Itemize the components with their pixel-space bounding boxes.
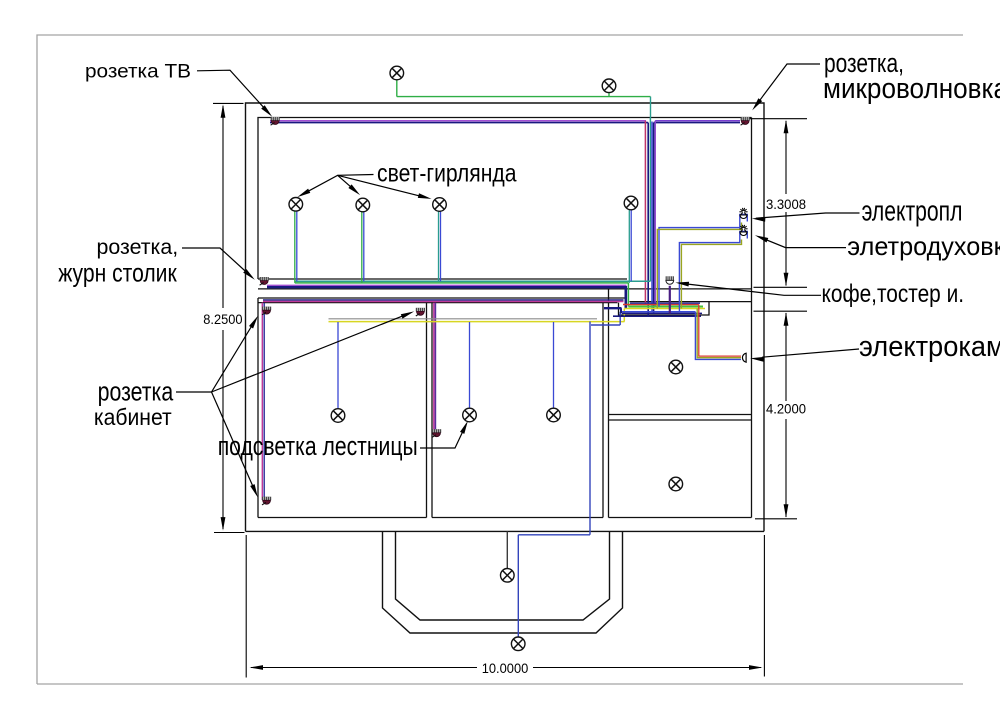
wire microwave violet horizontal bbox=[655, 120, 740, 122]
wire porch blue drop to lamp bbox=[517, 535, 519, 637]
wire lamp L6 drop bbox=[628, 210, 630, 283]
wire cabinet left navy vertical bbox=[263, 303, 265, 500]
socket stove bbox=[739, 208, 747, 219]
wall cabinet top upper line bbox=[258, 297, 625, 299]
lamp L2 (ceiling top right) bbox=[602, 79, 616, 93]
svg-text:микроволновка: микроволновка bbox=[823, 73, 1000, 105]
lamp L1 (ceiling top) bbox=[390, 66, 404, 80]
wire band navy C bbox=[630, 302, 700, 304]
wire porch blue junction bbox=[619, 312, 621, 325]
svg-text:4.2000: 4.2000 bbox=[766, 401, 806, 417]
wire green garland horizontal bbox=[295, 282, 629, 284]
leader fireplace bbox=[762, 349, 859, 357]
wire lamp L7 drop bbox=[337, 322, 339, 408]
wire lamp L3 drop bbox=[294, 211, 296, 283]
svg-text:элетродуховка: элетродуховка bbox=[847, 231, 1000, 261]
wire yellow riser bbox=[623, 309, 625, 322]
leader rozetka TV bbox=[197, 70, 270, 114]
wire oven blue bbox=[679, 232, 747, 312]
lamp L13 porch lower bbox=[511, 637, 525, 651]
svg-text:розетка,: розетка, bbox=[97, 236, 179, 259]
socket cabinet lower bbox=[262, 497, 271, 505]
svg-text:3.3008: 3.3008 bbox=[766, 196, 806, 212]
porch lamp feed (dark) bbox=[506, 531, 508, 568]
svg-text:электропл: электропл bbox=[862, 196, 963, 228]
leader svet-girlyanda bbox=[301, 175, 374, 196]
svg-text:розетка: розетка bbox=[98, 376, 174, 406]
wire yellow stair horizontal bbox=[329, 321, 625, 323]
wire bundle crimson vertical bbox=[644, 121, 646, 305]
socket oven bbox=[739, 225, 747, 236]
wire junction navy descent bbox=[624, 286, 627, 308]
wall inner right (kitchen side) bbox=[751, 118, 753, 518]
wire green ceiling horizontal bbox=[397, 96, 651, 98]
wall cabinet top lower line bbox=[258, 302, 618, 304]
wire lamp L4 drop bbox=[361, 212, 363, 283]
socket stair light bbox=[432, 429, 441, 437]
wire stove olive bbox=[657, 223, 741, 309]
leader rozetka microwave bbox=[755, 64, 821, 107]
porch outer outline bbox=[383, 531, 623, 633]
wire lamp L9 drop bbox=[553, 322, 555, 408]
svg-text:10.0000: 10.0000 bbox=[482, 660, 529, 676]
svg-text:кофе,тостер и.: кофе,тостер и. bbox=[822, 280, 965, 308]
wall stair-room right / kitchen left bbox=[602, 303, 604, 518]
wire cabinet left magenta vertical bbox=[261, 303, 263, 501]
wire junction green descent bbox=[627, 283, 629, 307]
svg-text:свет-гирлянда: свет-гирлянда bbox=[377, 159, 517, 187]
wall outer bottom bbox=[246, 530, 765, 532]
svg-text:электрокамин: электрокамин bbox=[859, 331, 1000, 363]
leader podsvetka lestnitsy bbox=[420, 424, 466, 448]
wire bundle teal vertical bbox=[649, 118, 651, 282]
wire coffee purple vertical bbox=[669, 286, 671, 314]
lamp L9 stair room right bbox=[547, 408, 561, 422]
wire lamp L1 drop bbox=[396, 80, 398, 96]
leader rozetka cabinet a bbox=[176, 319, 256, 392]
wire fireplace blue bbox=[695, 312, 741, 360]
lamp L7 cabinet bbox=[331, 409, 345, 423]
svg-text:кабинет: кабинет bbox=[94, 404, 172, 430]
socket journal table bbox=[260, 277, 269, 285]
wire band red bbox=[623, 304, 699, 306]
lamp L4 garland bbox=[356, 198, 370, 212]
dimension 10.0000 line bbox=[251, 667, 477, 669]
wall inner top-left room bbox=[258, 118, 752, 280]
wire lamp L2 drop bbox=[608, 93, 610, 97]
wire TV navy horizontal bbox=[270, 122, 648, 124]
lamp L3 garland bbox=[289, 198, 303, 212]
wall kitchen divider bbox=[609, 414, 752, 416]
leader electroduhovka bbox=[759, 237, 846, 248]
wire microwave navy horizontal bbox=[654, 122, 741, 124]
leader electroplita bbox=[756, 213, 860, 218]
leader rozetka cabinet c bbox=[212, 392, 257, 494]
wire journal navy horizontal bbox=[267, 286, 625, 288]
socket microwave bbox=[741, 117, 750, 125]
porch inner outline bbox=[396, 531, 610, 620]
dimension 4.2000 line bbox=[785, 313, 787, 401]
socket coffee/toaster bbox=[666, 276, 674, 284]
wire band navy B bbox=[613, 315, 701, 317]
wall kitchen counter top bbox=[630, 301, 752, 303]
wire band navy A bbox=[622, 312, 702, 314]
svg-text:журн столик: журн столик bbox=[58, 258, 177, 288]
wire oven olive bbox=[681, 240, 741, 309]
wall living-room bottom lower line bbox=[258, 288, 752, 290]
wire band blue bbox=[620, 311, 695, 313]
wire porch blue horizontal bbox=[518, 534, 590, 536]
wire cabinet-top magenta horizontal bbox=[263, 301, 624, 303]
wire teal riser into wall bbox=[650, 97, 652, 118]
wire stove blue bbox=[659, 215, 747, 307]
dimension 8.2500 line bbox=[222, 106, 224, 308]
lamp L11 kitchen lower bbox=[669, 477, 683, 491]
wire lamp L5 drop bbox=[438, 212, 440, 282]
lamp L12 porch upper bbox=[501, 569, 515, 583]
lamp L6 garland bbox=[624, 196, 638, 210]
lamp L8 stair room bbox=[463, 408, 477, 422]
svg-text:розетка ТВ: розетка ТВ bbox=[85, 61, 191, 83]
wire cabinet-top navy horizontal bbox=[263, 299, 624, 301]
stair grey line bbox=[329, 318, 598, 320]
wall outer rectangle bbox=[246, 103, 765, 531]
socket fireplace bbox=[742, 353, 746, 362]
wall living-room bottom upper line bbox=[258, 278, 627, 280]
leader coffee bbox=[679, 283, 821, 295]
leader rozetka journal bbox=[182, 248, 252, 278]
wire band yellow bbox=[624, 308, 705, 310]
socket mid-wall bbox=[416, 308, 425, 316]
lamp L5 garland bbox=[433, 198, 447, 212]
wall between cabinet and stair room bbox=[426, 303, 428, 518]
wire porch blue vertical long bbox=[589, 322, 591, 535]
wall rooms bottom inner bbox=[258, 517, 427, 519]
wire bundle violet vertical bbox=[654, 121, 656, 308]
counter box bbox=[619, 302, 710, 315]
wire journal violet horizontal bbox=[267, 284, 627, 286]
socket cabinet upper bbox=[262, 307, 271, 315]
wire midwall violet vertical bbox=[434, 303, 436, 430]
wall inner left (lower rooms) bbox=[257, 298, 259, 518]
wire fireplace red bbox=[699, 305, 741, 357]
leader rozetka cabinet b bbox=[212, 313, 411, 392]
wire bundle navy vertical B bbox=[653, 123, 655, 314]
wire midwall magenta vertical bbox=[433, 303, 435, 430]
svg-text:подсветка лестницы: подсветка лестницы bbox=[218, 431, 418, 461]
wire teal garland horizontal bbox=[295, 280, 651, 282]
wire lamp L8 drop bbox=[469, 322, 471, 408]
wire TV violet horizontal bbox=[270, 120, 646, 122]
svg-text:8.2500: 8.2500 bbox=[203, 311, 242, 327]
wire fireplace olive bbox=[697, 309, 741, 358]
socket TV bbox=[271, 117, 280, 125]
wire navy L-junction bbox=[604, 307, 622, 309]
wire bundle navy vertical A bbox=[647, 123, 649, 317]
wire band green bbox=[628, 306, 703, 308]
wire bundle blue vertical bbox=[651, 122, 653, 312]
lamp L10 kitchen upper bbox=[669, 360, 683, 374]
dimension 3.3008 line bbox=[785, 121, 787, 194]
